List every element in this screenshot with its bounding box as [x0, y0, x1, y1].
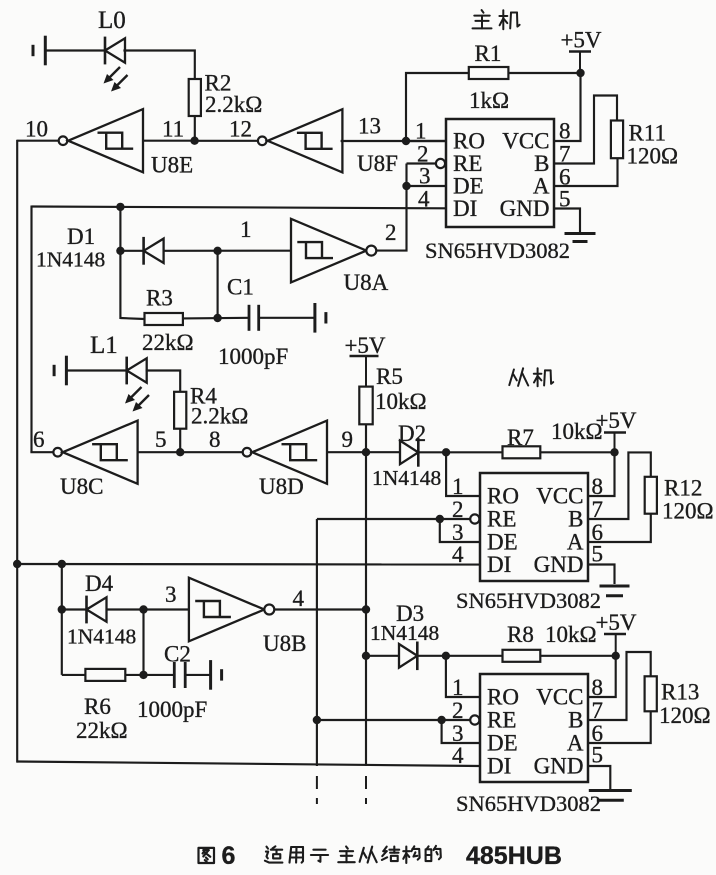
svg-text:GND: GND [500, 196, 550, 221]
wire D3 to R8/RO node [417, 655, 446, 657]
LED L0 [104, 37, 107, 65]
svg-text:1N4148: 1N4148 [67, 625, 136, 649]
junction node 11/12 [190, 137, 198, 145]
pin2 RE bubble slave2 [470, 715, 479, 724]
wire RE line slave1 [317, 518, 470, 520]
svg-text:U8F: U8F [357, 151, 398, 176]
svg-text:1N4148: 1N4148 [372, 466, 441, 490]
dashed continuation (signal rail) [365, 776, 367, 804]
signal rail (U8B out / D2 / D3) [365, 452, 367, 766]
wire LED L0 to R2 top [123, 51, 194, 80]
resistor R4 [174, 392, 186, 429]
svg-text:6: 6 [33, 427, 45, 452]
svg-text:R11: R11 [629, 121, 667, 146]
capacitor C2 [173, 662, 176, 688]
wire +5V down to chip2 VCC [588, 452, 615, 496]
wire D2 to R7/RO node [418, 451, 446, 453]
junction D2/R7/RO [442, 448, 450, 456]
svg-text:3: 3 [165, 582, 177, 607]
transceiver U-master SN65HVD3082 [446, 119, 554, 227]
junction rail/D3 anode [362, 652, 370, 660]
wire node to R8 [446, 655, 503, 657]
junction R7/+5V [610, 448, 618, 456]
svg-text:C1: C1 [227, 275, 254, 300]
svg-text:SN65HVD3082: SN65HVD3082 [456, 791, 601, 816]
resistor R5 [359, 387, 372, 425]
junction slave-DI/D4 branch [58, 560, 66, 568]
svg-text:A: A [567, 530, 584, 555]
wire D4 branch vertical [61, 564, 63, 675]
wire R6 left leg [62, 674, 86, 676]
wire RE-DE tie slave1 [440, 519, 480, 542]
pin2 stub master [407, 162, 437, 164]
wire down to chip3 RO [446, 656, 480, 697]
svg-text:U8B: U8B [263, 631, 306, 656]
pin2 RE bubble master [436, 159, 445, 168]
inverter U8D [243, 448, 252, 457]
wire U8C output pin 6 to up-rail [30, 451, 53, 453]
diode D3 1N4148 [399, 644, 417, 668]
svg-text:+5V: +5V [595, 610, 636, 635]
ground (slave1 chip) [600, 585, 630, 588]
wire C1 branch vertical [217, 251, 219, 318]
svg-text:22kΩ: 22kΩ [142, 330, 194, 355]
wire to D1 cathode [120, 250, 143, 252]
junction R6/C2 [139, 671, 147, 679]
wire R3 to C1 [183, 317, 249, 320]
wire D4 to U8B input [107, 608, 189, 610]
caption 图6 适用于主从结构的 485HUB [199, 848, 215, 863]
svg-text:B: B [568, 708, 583, 733]
svg-text:R7: R7 [507, 425, 534, 450]
wire C1 to ground [259, 317, 315, 319]
svg-text:+5V: +5V [344, 333, 385, 358]
svg-text:4: 4 [452, 743, 464, 768]
svg-text:DE: DE [487, 731, 518, 756]
svg-text:R6: R6 [84, 694, 111, 719]
wire node to R7 [446, 451, 502, 453]
junction D3/R8/RO [442, 652, 450, 660]
svg-text:1: 1 [452, 675, 464, 700]
wire U8E input pin 11 [143, 140, 195, 142]
wire RE-DE tie to U8A output [376, 164, 407, 251]
junction RE-rail/chip3 [313, 716, 321, 724]
svg-text:GND: GND [534, 754, 584, 779]
junction left-rail/slave-DI [13, 560, 21, 568]
wire bottom DI line to chip3 [17, 762, 480, 767]
svg-text:L0: L0 [98, 7, 126, 34]
svg-text:485HUB: 485HUB [466, 842, 562, 870]
svg-text:+5V: +5V [595, 408, 636, 433]
svg-text:1: 1 [240, 217, 252, 242]
svg-text:RO: RO [487, 484, 519, 509]
wire slave DI line [17, 563, 480, 566]
wire C2 branch vertical [142, 610, 144, 675]
wire R8 to +5V [540, 655, 615, 657]
svg-text:DI: DI [453, 196, 477, 221]
resistor R12 [645, 477, 657, 514]
wire chip2 A to R12 bottom [588, 514, 651, 542]
wire node to U8F output pin 12 [195, 140, 258, 142]
junction RE slave1 [436, 515, 444, 523]
svg-text:R5: R5 [376, 364, 403, 389]
svg-text:8: 8 [209, 427, 221, 452]
LED L1 [125, 357, 128, 385]
svg-text:4: 4 [293, 586, 305, 611]
svg-text:5: 5 [155, 427, 167, 452]
label 主机 (master) [482, 10, 484, 13]
wire B to R11 top [554, 96, 617, 164]
svg-text:RO: RO [487, 685, 519, 710]
wire RE-DE tie slave2 [442, 720, 480, 743]
svg-text:VCC: VCC [536, 685, 583, 710]
junction U8B-out/rail [362, 605, 370, 613]
inverter U8B [189, 578, 264, 642]
svg-text:B: B [534, 151, 549, 176]
svg-text:D1: D1 [67, 224, 95, 249]
svg-text:10: 10 [25, 117, 48, 142]
svg-text:D4: D4 [85, 571, 114, 596]
resistor R2 [189, 79, 201, 116]
svg-text:SN65HVD3082: SN65HVD3082 [456, 588, 601, 613]
svg-text:8: 8 [592, 675, 604, 700]
wire master DI line [32, 207, 447, 209]
svg-text:10kΩ: 10kΩ [375, 389, 427, 414]
svg-text:R8: R8 [507, 622, 534, 647]
wire RE line slave2 [317, 719, 470, 721]
svg-text:U8E: U8E [151, 153, 193, 178]
wire U8D input pin 9 [327, 451, 366, 453]
transceiver U-slave2 SN65HVD3082 [480, 674, 588, 782]
svg-text:3: 3 [419, 164, 431, 189]
junction D4 cathode node [58, 605, 66, 613]
dashed continuation (RE rail) [316, 776, 318, 804]
svg-text:2.2kΩ: 2.2kΩ [191, 404, 248, 429]
resistor R1 [469, 67, 509, 79]
svg-text:22kΩ: 22kΩ [76, 718, 128, 743]
svg-text:10kΩ: 10kΩ [545, 622, 597, 647]
inverter U8A [291, 219, 366, 283]
transceiver U-slave1 SN65HVD3082 [480, 473, 588, 581]
svg-text:DE: DE [453, 174, 484, 199]
wire R5 to node9 [365, 424, 367, 452]
wire DI-line vertical to U8C output [30, 206, 32, 453]
wire C2 to ground [185, 674, 210, 676]
wire down to chip2 RO [446, 452, 480, 496]
wire A to R11 bottom [554, 158, 618, 186]
svg-text:1: 1 [415, 119, 427, 144]
svg-text:GND: GND [534, 552, 584, 577]
wire chip3 B to R13 top [588, 652, 651, 720]
svg-text:U8D: U8D [259, 474, 304, 499]
ground (C2) [209, 660, 212, 690]
svg-text:DI: DI [487, 754, 511, 779]
svg-text:C2: C2 [164, 642, 191, 667]
resistor R3 [145, 313, 183, 325]
RE/DE rail down to chip3 [316, 519, 318, 766]
svg-text:DE: DE [487, 530, 518, 555]
svg-text:D2: D2 [398, 421, 426, 446]
svg-text:A: A [567, 731, 584, 756]
svg-text:R13: R13 [661, 680, 699, 705]
svg-text:R1: R1 [475, 41, 502, 66]
svg-text:11: 11 [162, 117, 184, 142]
diode D4 1N4148 [85, 596, 88, 624]
wire R1 to +5V rail [508, 72, 580, 74]
svg-text:RE: RE [487, 507, 516, 532]
wire chip2 GND to ground [588, 565, 615, 585]
junction U8A input node [213, 247, 221, 255]
junction DE master [402, 182, 410, 190]
inverter U8E [59, 136, 68, 145]
diode D1 1N4148 [142, 237, 145, 265]
resistor R13 [645, 676, 657, 711]
svg-text:RO: RO [453, 129, 485, 154]
wire +5V down to chip3 VCC [588, 656, 616, 697]
wire +5V down to VCC [554, 73, 581, 141]
wire R4 bottom to node 5/8 [179, 429, 181, 453]
svg-text:1: 1 [452, 474, 464, 499]
wire rail to D3 [366, 655, 399, 657]
wire chip3 A to R13 bottom [588, 711, 651, 743]
svg-text:L1: L1 [90, 332, 118, 359]
junction D1 cathode node [116, 247, 124, 255]
ground (L0) [44, 36, 47, 66]
wire U8E output pin 10 to left rail [17, 140, 58, 142]
svg-text:8: 8 [592, 474, 604, 499]
junction DI/D1 branch [116, 203, 124, 211]
svg-text:B: B [568, 507, 583, 532]
wire node9 to D2 anode [366, 451, 400, 453]
wire chip2 B to R12 top [588, 452, 651, 519]
junction R3/C1 [213, 314, 221, 322]
inverter U8C [53, 448, 62, 457]
ground (C1) [313, 303, 316, 333]
wire ground to LED L0 [45, 49, 105, 51]
svg-text:2.2kΩ: 2.2kΩ [205, 92, 262, 117]
svg-text:120Ω: 120Ω [662, 499, 714, 524]
svg-text:A: A [533, 174, 550, 199]
wire ground to LED L1 [66, 369, 126, 371]
wire D1 branch vertical [119, 207, 121, 319]
junction +5V/R1 [576, 69, 584, 77]
svg-text:U8A: U8A [344, 270, 389, 295]
junction pin9/R5/D2 [362, 448, 370, 456]
svg-text:9: 9 [342, 427, 354, 452]
wire U8F input pin 13 to chip1 RO [341, 140, 446, 142]
wire R6 to C2 [125, 674, 174, 676]
svg-text:1N4148: 1N4148 [36, 248, 105, 272]
svg-text:1N4148: 1N4148 [370, 621, 439, 645]
inverter U8F [258, 137, 267, 146]
svg-text:5: 5 [592, 743, 604, 768]
ground (slave2 chip) [589, 789, 632, 792]
svg-text:5: 5 [592, 542, 604, 567]
pin2 RE bubble slave1 [470, 514, 479, 523]
wire GND pin to ground (master) [554, 209, 580, 233]
pin3 stub master [407, 185, 447, 187]
svg-text:120Ω: 120Ω [627, 144, 679, 169]
ground (master chip) [565, 232, 596, 235]
svg-text:R3: R3 [146, 286, 173, 311]
diode D2 1N4148 [400, 441, 418, 465]
wire R2 bottom to node 11 [194, 116, 196, 141]
resistor R8 [503, 650, 541, 662]
svg-text:2: 2 [385, 220, 397, 245]
svg-text:RE: RE [487, 708, 516, 733]
svg-text:1kΩ: 1kΩ [469, 88, 509, 113]
wire node to U8D output pin 8 [180, 451, 242, 453]
wire R3 row left [120, 318, 144, 319]
resistor R6 [85, 669, 125, 681]
wire to D4 cathode [62, 608, 87, 610]
svg-text:DI: DI [487, 552, 511, 577]
junction RE slave2 [437, 716, 445, 724]
svg-text:U8C: U8C [60, 474, 103, 499]
capacitor C1 [248, 305, 251, 331]
pin1 stub master [406, 140, 446, 142]
svg-text:VCC: VCC [536, 484, 583, 509]
wire D1 to U8A input [165, 250, 292, 252]
ground (L1) [65, 356, 68, 386]
svg-text:1000pF: 1000pF [218, 344, 288, 369]
left rail wire (U8E pin10 down to DI lines) [16, 140, 18, 763]
wire R7 to +5V [540, 451, 614, 453]
junction RO node master [402, 137, 410, 145]
svg-text:4: 4 [452, 542, 464, 567]
svg-text:1000pF: 1000pF [137, 697, 207, 722]
wire LED L1 to R4 top [146, 371, 181, 392]
svg-text:13: 13 [358, 114, 381, 139]
svg-text:RE: RE [453, 151, 482, 176]
label 从机 (slave) [509, 370, 514, 386]
wire RO node up to R1 [406, 73, 469, 141]
svg-text:12: 12 [229, 117, 252, 142]
resistor R11 [611, 121, 623, 159]
wire U8C input pin 5 [138, 451, 181, 453]
svg-text:6: 6 [222, 842, 236, 870]
svg-text:+5V: +5V [560, 28, 601, 53]
svg-text:120Ω: 120Ω [659, 703, 711, 728]
junction node 5/8 [176, 448, 184, 456]
svg-text:8: 8 [559, 119, 571, 144]
svg-text:R12: R12 [664, 476, 702, 501]
wire U8B output to rail [274, 608, 366, 610]
junction R8/+5V [612, 652, 620, 660]
svg-text:SN65HVD3082: SN65HVD3082 [425, 238, 570, 263]
resistor R7 [503, 446, 541, 458]
svg-text:VCC: VCC [502, 129, 549, 154]
junction U8B input node [139, 605, 147, 613]
wire chip3 GND to ground [588, 766, 610, 789]
